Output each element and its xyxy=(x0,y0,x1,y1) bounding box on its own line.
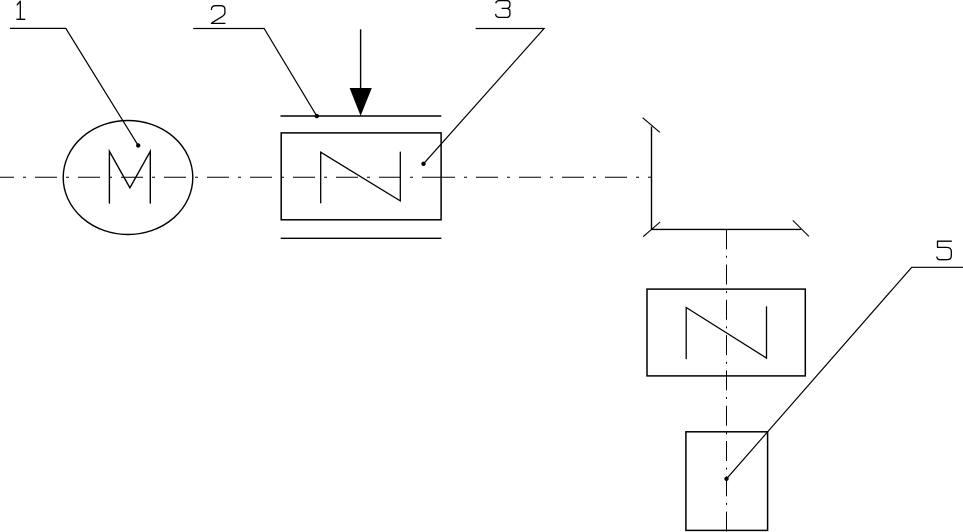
variator N symbol in second gearbox xyxy=(686,307,766,359)
bevel gear vertical line xyxy=(651,127,653,230)
label 3 digit xyxy=(496,1,510,18)
label 2 leader dot xyxy=(315,114,319,118)
label 2 leader xyxy=(193,29,317,117)
label 1 leader dot xyxy=(136,143,140,147)
force arrow shaft xyxy=(360,29,362,89)
label 5 leader xyxy=(727,267,963,479)
label 3 leader xyxy=(424,29,545,164)
label 1 leader xyxy=(10,28,138,145)
label 2 digit xyxy=(211,6,225,24)
label 1 digit xyxy=(17,1,25,19)
horizontal shaft centerline xyxy=(0,176,652,178)
label 3 leader dot xyxy=(421,162,425,166)
motor letter M xyxy=(109,151,150,203)
frame line below gearbox xyxy=(281,237,442,239)
vertical shaft centerline xyxy=(726,229,728,532)
bevel gear right tick xyxy=(793,220,809,236)
bevel gear corner tick xyxy=(643,222,660,237)
bevel gear horizontal line xyxy=(652,228,801,230)
force arrow head xyxy=(350,88,372,116)
variator N symbol in gearbox xyxy=(321,152,401,203)
output box (item 5) xyxy=(686,432,768,531)
frame line above gearbox (item 2) xyxy=(281,115,442,117)
motor M1 ellipse xyxy=(63,121,193,235)
second variator gearbox box xyxy=(647,289,805,376)
bevel gear top tick xyxy=(643,118,660,133)
label 5 digit xyxy=(937,241,951,260)
variator gearbox box (item 3) xyxy=(281,133,441,220)
label 5 leader dot xyxy=(724,477,728,481)
